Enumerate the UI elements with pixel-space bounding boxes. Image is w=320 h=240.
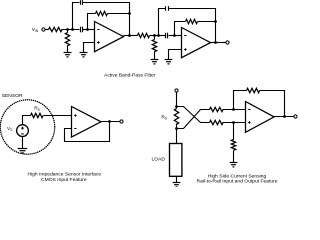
svg-text:Rail-to-Rail Input and Output: Rail-to-Rail Input and Output Feature (197, 179, 278, 185)
svg-text:Active Band-Pass Filter: Active Band-Pass Filter (104, 72, 156, 78)
svg-text:High Impedance Sensor Interfac: High Impedance Sensor Interface (28, 172, 102, 178)
svg-text:SENSOR: SENSOR (2, 93, 23, 99)
svg-text:LOAD: LOAD (152, 157, 166, 163)
svg-text:CMOS Input Feature: CMOS Input Feature (41, 177, 87, 183)
